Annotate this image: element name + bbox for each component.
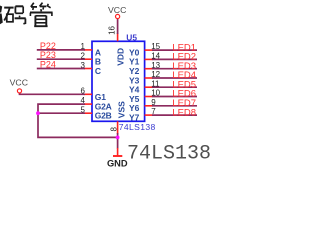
junction node G2A/G2B <box>36 111 40 115</box>
svg-text:U5: U5 <box>126 33 137 43</box>
svg-text:P24: P24 <box>40 60 56 70</box>
wire pin 13 to LED3 <box>152 68 197 70</box>
IC U5 74LS138 body <box>92 41 145 121</box>
pin 11 stub <box>145 86 153 88</box>
pin 14 stub <box>145 58 153 60</box>
pin 6 stub <box>84 93 92 95</box>
pin 15 stub <box>145 49 153 51</box>
wire pin 12 to LED4 <box>152 77 197 79</box>
title text partial char 数 (clipped at left edge) <box>0 6 3 25</box>
svg-text:VCC: VCC <box>10 78 28 88</box>
svg-text:Y7: Y7 <box>129 112 140 122</box>
title text char 码 <box>4 6 26 24</box>
wire pin 5 (G2B) <box>38 112 85 114</box>
svg-text:VSS: VSS <box>116 101 126 118</box>
wire P22 to pin 1 <box>37 49 85 51</box>
svg-text:LED8: LED8 <box>172 107 196 118</box>
pin 2 stub <box>84 58 92 60</box>
wire node down to ground rail <box>38 113 118 137</box>
pin 16 stub <box>117 33 119 41</box>
svg-text:GND: GND <box>107 158 128 168</box>
pin 8 stub <box>117 121 119 134</box>
wire P24 to pin 3 <box>37 68 85 70</box>
wire pin 4 (G2A) drop to node <box>38 104 85 113</box>
wire pin 8 to ground rail <box>117 133 119 137</box>
svg-text:74LS138: 74LS138 <box>127 142 211 165</box>
pin 9 stub <box>145 105 153 107</box>
pin 13 stub <box>145 68 153 70</box>
junction node ground rail / pin 8 <box>116 136 120 140</box>
svg-text:16: 16 <box>108 25 117 34</box>
svg-text:8: 8 <box>110 127 119 132</box>
pin 10 stub <box>145 96 153 98</box>
wire pin 15 to LED1 <box>152 49 197 51</box>
svg-text:VCC: VCC <box>108 5 126 15</box>
wire VCC to pin 6 (G1) <box>20 93 86 95</box>
pin 12 stub <box>145 77 153 79</box>
pin 4 stub <box>84 103 92 105</box>
svg-text:G2B: G2B <box>95 111 112 121</box>
pin 1 stub <box>84 49 92 51</box>
wire pin 9 to LED7 <box>152 105 197 107</box>
title text char 管 <box>30 3 53 27</box>
wire pin 11 to LED5 <box>152 86 197 88</box>
wire pin 7 to LED8 <box>152 114 197 116</box>
wire VCC top to pin 16 <box>117 19 119 34</box>
svg-text:C: C <box>95 66 101 76</box>
wire pin 10 to LED6 <box>152 96 197 98</box>
wire pin 14 to LED2 <box>152 58 197 60</box>
pin 5 stub <box>84 112 92 114</box>
wire ground rail to GND symbol <box>117 137 119 148</box>
wire P23 to pin 2 <box>37 58 85 60</box>
svg-text:VDD: VDD <box>115 48 125 66</box>
pin 7 stub <box>145 114 153 116</box>
svg-text:74LS138: 74LS138 <box>119 122 156 132</box>
pin 3 stub <box>84 68 92 70</box>
power port GND symbol <box>117 148 119 156</box>
